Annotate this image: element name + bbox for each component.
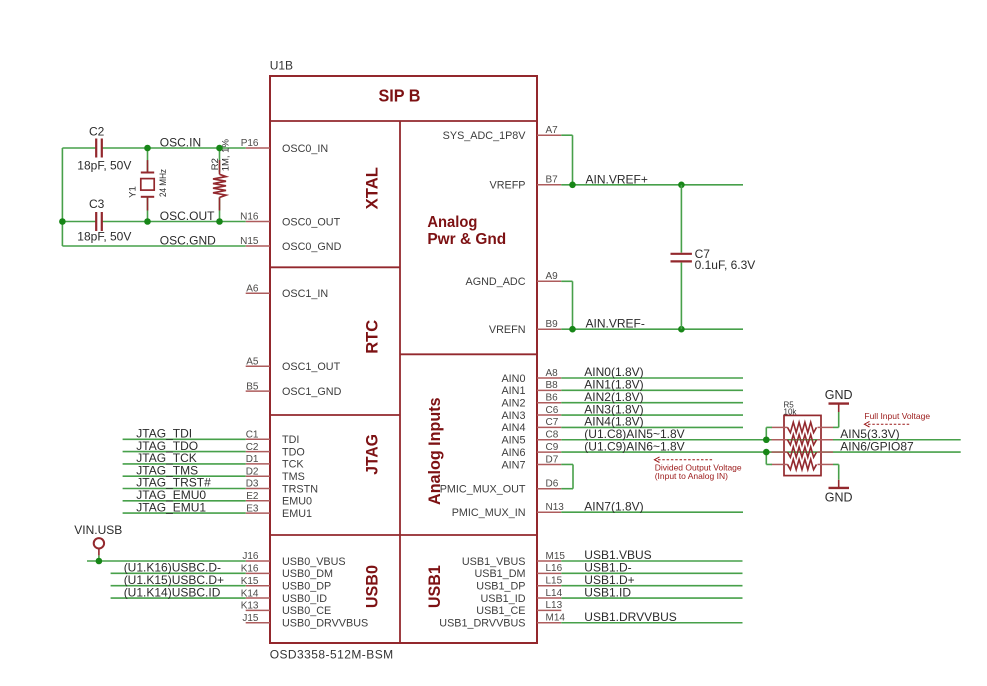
svg-text:A5: A5: [246, 356, 259, 367]
svg-text:R2: R2: [210, 158, 221, 170]
ground symbol GND bottom: [829, 487, 850, 489]
svg-text:0.1uF, 6.3V: 0.1uF, 6.3V: [695, 258, 756, 272]
pin N13 PMIC_MUX_IN: [537, 511, 561, 513]
annotation Divided Output Voltage: [658, 459, 713, 461]
wire OSC.GND net: [62, 245, 245, 247]
pin B7 VREFP: [537, 184, 561, 186]
svg-text:C6: C6: [546, 405, 559, 416]
junction dots oscillator: [144, 145, 151, 152]
svg-text:USB0_DM: USB0_DM: [282, 568, 333, 580]
svg-text:D3: D3: [246, 479, 259, 490]
svg-text:(Input to Analog IN): (Input to Analog IN): [655, 471, 728, 481]
svg-text:USB1.ID: USB1.ID: [584, 585, 631, 599]
pin A8 AIN0: [537, 377, 561, 379]
svg-text:L16: L16: [546, 563, 563, 574]
pin C7 AIN4: [537, 426, 561, 428]
svg-text:USB0_CE: USB0_CE: [282, 605, 331, 617]
svg-text:USB1.DRVVBUS: USB1.DRVVBUS: [584, 610, 676, 624]
svg-text:AIN7(1.8V): AIN7(1.8V): [584, 499, 643, 513]
pin N16 OSC0_OUT: [246, 221, 270, 223]
wire AIN1(1.8V): [561, 389, 743, 391]
pin E2 EMU0: [246, 500, 270, 502]
svg-text:USB1_VBUS: USB1_VBUS: [462, 556, 526, 568]
wire JTAG_EMU1: [123, 512, 246, 514]
svg-text:USB0_DP: USB0_DP: [282, 581, 331, 593]
pin C2 TDO: [246, 451, 270, 453]
svg-text:OSC0_GND: OSC0_GND: [282, 241, 342, 253]
pin D2 TMS: [246, 475, 270, 477]
svg-text:USB0_VBUS: USB0_VBUS: [282, 556, 346, 568]
svg-text:L14: L14: [546, 588, 563, 599]
svg-text:U1B: U1B: [270, 59, 293, 73]
svg-text:C2: C2: [89, 125, 105, 139]
pin N15 OSC0_GND: [246, 245, 270, 247]
wire (U1.K14)USBC.ID: [111, 597, 246, 599]
svg-text:AIN0: AIN0: [501, 373, 525, 385]
svg-text:1M, 1%: 1M, 1%: [220, 139, 231, 172]
svg-text:OSC1_OUT: OSC1_OUT: [282, 361, 341, 373]
svg-text:AIN7: AIN7: [501, 459, 525, 471]
svg-text:18pF, 50V: 18pF, 50V: [77, 159, 131, 173]
svg-text:E2: E2: [246, 491, 259, 502]
wire (U1.C8)AIN5~1.8V: [561, 439, 960, 441]
wire USB1.ID: [561, 597, 742, 599]
supply symbol VIN.USB: [94, 538, 104, 548]
svg-text:(U1.K14)USBC.ID: (U1.K14)USBC.ID: [124, 585, 221, 599]
svg-text:K13: K13: [241, 601, 259, 612]
svg-text:AIN2: AIN2: [501, 398, 525, 410]
svg-text:USB0_ID: USB0_ID: [282, 593, 327, 605]
svg-text:TDI: TDI: [282, 434, 299, 446]
svg-text:L15: L15: [546, 576, 563, 587]
svg-text:SYS_ADC_1P8V: SYS_ADC_1P8V: [443, 130, 527, 142]
wire left vertical (cap ground side): [61, 148, 63, 246]
svg-text:D6: D6: [546, 479, 559, 490]
svg-text:AIN.VREF-: AIN.VREF-: [586, 317, 645, 331]
pin C9 AIN6: [537, 451, 561, 453]
pin K13 USB0_CE: [246, 609, 270, 611]
svg-text:D7: D7: [546, 454, 559, 465]
svg-text:C3: C3: [89, 197, 105, 211]
pin K15 USB0_DP: [246, 585, 270, 587]
svg-text:JTAG: JTAG: [364, 434, 382, 475]
svg-text:D2: D2: [246, 466, 259, 477]
ground symbol GND top: [829, 402, 850, 404]
wire R5 top to GND: [833, 426, 839, 428]
svg-text:AIN4: AIN4: [501, 422, 525, 434]
pin D6 PMIC_MUX_OUT: [537, 488, 561, 490]
capacitor C3: [95, 212, 97, 231]
wire AIN0(1.8V): [561, 377, 743, 379]
svg-text:E3: E3: [246, 503, 259, 514]
svg-text:OSC1_GND: OSC1_GND: [282, 386, 342, 398]
pin E3 EMU1: [246, 512, 270, 514]
svg-text:GND: GND: [825, 491, 853, 505]
wire USB1.VBUS: [561, 560, 742, 562]
svg-text:Y1: Y1: [128, 186, 139, 198]
svg-text:USB1_DM: USB1_DM: [474, 568, 525, 580]
pin D7 AIN7: [537, 463, 561, 465]
resistor R2 1M 1%: [219, 148, 221, 172]
svg-text:VIN.USB: VIN.USB: [74, 523, 122, 537]
svg-text:XTAL: XTAL: [364, 167, 382, 209]
pin D3 TRSTN: [246, 488, 270, 490]
svg-text:USB0_DRVVBUS: USB0_DRVVBUS: [282, 618, 368, 630]
pin K16 USB0_DM: [246, 572, 270, 574]
svg-text:A9: A9: [546, 271, 559, 282]
pin A7 SYS_ADC_1P8V: [537, 134, 561, 136]
svg-text:USB1_DP: USB1_DP: [476, 581, 525, 593]
svg-text:C2: C2: [246, 442, 259, 453]
pin J15 USB0_DRVVBUS: [246, 622, 270, 624]
pin B6 AIN2: [537, 402, 561, 404]
svg-text:OSC.GND: OSC.GND: [160, 233, 216, 247]
svg-text:10k: 10k: [784, 407, 798, 416]
svg-text:AIN.VREF+: AIN.VREF+: [586, 172, 648, 186]
pin L14 USB1_ID: [537, 597, 561, 599]
wire VIN.USB to USB0_VBUS: [98, 555, 100, 561]
wire OSC.OUT net: [62, 221, 95, 223]
wire JTAG_TCK: [123, 463, 246, 465]
pin C8 AIN5: [537, 439, 561, 441]
svg-text:A6: A6: [246, 284, 259, 295]
svg-text:C8: C8: [546, 430, 559, 441]
svg-text:USB1_CE: USB1_CE: [476, 605, 525, 617]
wire USB1.D-: [561, 572, 742, 574]
svg-text:OSD3358-512M-BSM: OSD3358-512M-BSM: [270, 648, 394, 662]
pin A9 AGND_ADC: [537, 280, 561, 282]
svg-text:B9: B9: [546, 319, 559, 330]
svg-text:AIN5: AIN5: [501, 435, 525, 447]
svg-text:N13: N13: [546, 502, 565, 513]
wire JTAG_TMS: [123, 475, 246, 477]
svg-text:AIN1: AIN1: [501, 385, 525, 397]
pin C1 TDI: [246, 438, 270, 440]
wire (U1.K15)USBC.D+: [111, 585, 246, 587]
svg-text:USB1_ID: USB1_ID: [480, 593, 525, 605]
svg-text:C7: C7: [546, 417, 559, 428]
svg-text:USB0: USB0: [364, 565, 382, 608]
capacitor C7 0.1uF 6.3V: [680, 185, 682, 253]
svg-text:TMS: TMS: [282, 471, 305, 483]
svg-text:OSC.IN: OSC.IN: [160, 135, 201, 149]
svg-text:EMU0: EMU0: [282, 496, 312, 508]
wire (U1.C9)AIN6~1.8V: [561, 451, 960, 453]
svg-text:Full Input Voltage: Full Input Voltage: [864, 411, 930, 421]
svg-text:OSC0_OUT: OSC0_OUT: [282, 216, 341, 228]
wire A9 AGND_ADC to VREFN: [561, 280, 572, 282]
pin J16 USB0_VBUS: [246, 560, 270, 562]
capacitor C2: [95, 139, 97, 158]
svg-text:A8: A8: [546, 368, 559, 379]
svg-text:TDO: TDO: [282, 446, 305, 458]
wire R5 bottom to GND: [833, 463, 839, 465]
svg-text:M15: M15: [546, 551, 566, 562]
op-amp U1B SIP B block outline: [270, 76, 537, 643]
svg-text:C9: C9: [546, 442, 559, 453]
svg-text:OSC.OUT: OSC.OUT: [160, 209, 215, 223]
pin B8 AIN1: [537, 389, 561, 391]
wire JTAG_EMU0: [123, 500, 246, 502]
resistor network R5 10k: [784, 415, 821, 475]
svg-text:J15: J15: [242, 613, 259, 624]
wire USB1.D+: [561, 585, 742, 587]
svg-text:PMIC_MUX_OUT: PMIC_MUX_OUT: [440, 484, 526, 496]
svg-text:AGND_ADC: AGND_ADC: [466, 276, 526, 288]
svg-text:VREFP: VREFP: [490, 180, 526, 192]
svg-text:RTC: RTC: [364, 320, 382, 354]
svg-text:SIP B: SIP B: [379, 86, 421, 106]
pin L15 USB1_DP: [537, 585, 561, 587]
wire R5 top tap to AIN5: [766, 426, 772, 428]
svg-text:(U1.C9)AIN6~1.8V: (U1.C9)AIN6~1.8V: [584, 439, 684, 453]
svg-text:EMU1: EMU1: [282, 508, 312, 520]
wire AIN4(1.8V): [561, 426, 743, 428]
svg-text:L13: L13: [546, 600, 563, 611]
svg-text:USB1_DRVVBUS: USB1_DRVVBUS: [439, 618, 525, 630]
svg-text:24 MHz: 24 MHz: [158, 169, 169, 197]
svg-text:JTAG_EMU1: JTAG_EMU1: [136, 500, 206, 514]
svg-text:AIN6: AIN6: [501, 447, 525, 459]
svg-text:USB1: USB1: [426, 565, 444, 608]
svg-text:B7: B7: [546, 175, 559, 186]
wire JTAG_TDO: [123, 451, 246, 453]
pin A5 OSC1_OUT: [246, 365, 270, 367]
svg-text:B6: B6: [546, 393, 559, 404]
wire OSC.IN net: [62, 147, 95, 149]
pin B9 VREFN: [537, 328, 561, 330]
svg-text:B5: B5: [246, 381, 259, 392]
pin K14 USB0_ID: [246, 597, 270, 599]
wire AIN3(1.8V): [561, 414, 743, 416]
wire (U1.K16)USBC.D-: [111, 572, 246, 574]
pin M14 USB1_DRVVBUS: [537, 622, 561, 624]
svg-text:PMIC_MUX_IN: PMIC_MUX_IN: [452, 507, 526, 519]
wire AIN2(1.8V): [561, 402, 743, 404]
wire JTAG_TRST#: [123, 488, 246, 490]
svg-text:VREFN: VREFN: [489, 324, 526, 336]
svg-text:OSC0_IN: OSC0_IN: [282, 143, 328, 155]
pin M15 USB1_VBUS: [537, 560, 561, 562]
wire USB1.DRVVBUS: [561, 622, 742, 624]
wire AIN7(1.8V) net: [561, 511, 743, 513]
wire R5 bottom tap to AIN6: [766, 463, 772, 465]
crystal Y1 24 MHz: [147, 148, 149, 172]
svg-text:C1: C1: [246, 430, 259, 441]
svg-text:A7: A7: [546, 125, 559, 136]
wire AIN.VREF+ net: [561, 184, 743, 186]
pin L13 USB1_CE: [537, 609, 561, 611]
svg-text:Analog: Analog: [427, 214, 477, 231]
wire AIN7 to PMIC_MUX_OUT loop: [561, 463, 573, 465]
svg-text:OSC1_IN: OSC1_IN: [282, 288, 328, 300]
svg-text:B8: B8: [546, 380, 559, 391]
pin A6 OSC1_IN: [246, 292, 270, 294]
pin B5 OSC1_GND: [246, 390, 270, 392]
pin D1 TCK: [246, 463, 270, 465]
svg-text:18pF, 50V: 18pF, 50V: [77, 230, 131, 244]
svg-text:TCK: TCK: [282, 459, 304, 471]
svg-text:GND: GND: [825, 388, 853, 402]
wire A7 SYS_ADC_1P8V to VREFP: [561, 134, 572, 136]
svg-text:AIN3: AIN3: [501, 410, 525, 422]
svg-text:Pwr & Gnd: Pwr & Gnd: [427, 231, 506, 248]
wire AIN.VREF- net: [561, 328, 743, 330]
svg-text:M14: M14: [546, 613, 566, 624]
svg-text:AIN6/GPIO87: AIN6/GPIO87: [840, 439, 914, 453]
wire JTAG_TDI: [123, 438, 246, 440]
pin P16 OSC0_IN: [246, 147, 270, 149]
pin L16 USB1_DM: [537, 572, 561, 574]
pin C6 AIN3: [537, 414, 561, 416]
svg-text:D1: D1: [246, 454, 259, 465]
svg-text:TRSTN: TRSTN: [282, 483, 318, 495]
